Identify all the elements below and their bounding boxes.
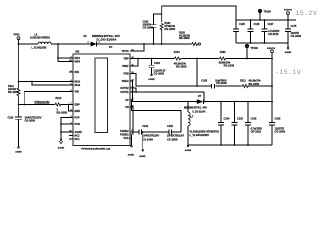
junction FBN line end xyxy=(271,85,273,87)
ground AGND left bus xyxy=(15,147,22,154)
pin stub NC2 xyxy=(69,135,73,137)
svg-text:CS-1608: CS-1608 xyxy=(275,131,286,134)
svg-text:RS-1608: RS-1608 xyxy=(176,66,187,69)
wire FBP line xyxy=(130,58,272,60)
svg-text:CS-1608: CS-1608 xyxy=(25,120,36,123)
wire P5V2 left bus xyxy=(19,44,21,88)
U32 left pin numbers xyxy=(69,56,72,132)
wire P5GOOD to ENP xyxy=(19,104,74,106)
svg-text:AGND: AGND xyxy=(58,146,65,149)
diode D6 xyxy=(91,42,97,47)
svg-text:VLS6012HBX-4R7M/TDK: VLS6012HBX-4R7M/TDK xyxy=(30,36,50,39)
svg-text:C135: C135 xyxy=(237,117,243,120)
U32 right pin names xyxy=(120,50,129,140)
svg-text:AGND: AGND xyxy=(128,153,135,156)
diode D7 xyxy=(197,99,204,104)
value label D6 xyxy=(84,35,121,43)
capacitor C127 xyxy=(261,20,267,43)
value label C162 xyxy=(167,125,184,141)
svg-text:CS-1608: CS-1608 xyxy=(154,72,165,75)
junction bottom rail C136 xyxy=(247,144,249,146)
pin stub INN xyxy=(69,71,73,73)
svg-text:PSP: PSP xyxy=(75,116,80,119)
svg-text:TPS65131RGER-Q1: TPS65131RGER-Q1 xyxy=(81,149,112,151)
svg-text:ENP: ENP xyxy=(75,103,80,106)
wire N15V rail xyxy=(204,101,272,103)
svg-text:AGND: AGND xyxy=(148,78,155,81)
svg-text:VLS6012HBX-4R7M/TDK: VLS6012HBX-4R7M/TDK xyxy=(190,130,220,133)
resistor R211 xyxy=(242,85,249,88)
junction INA split xyxy=(31,81,33,83)
junction C164 xyxy=(151,58,153,60)
resistor R194 xyxy=(174,57,182,60)
value labels C125 C126 C127 xyxy=(239,23,280,36)
value label D7 xyxy=(184,95,207,113)
junction bottom rail C135 xyxy=(234,144,236,146)
junction N15V rail bus xyxy=(271,101,273,103)
capacitor C162 xyxy=(169,130,171,135)
svg-text:C169: C169 xyxy=(275,117,281,120)
svg-text:AGND: AGND xyxy=(15,150,22,153)
svg-text:R194: R194 xyxy=(174,51,180,54)
svg-text:RS-1608: RS-1608 xyxy=(224,64,235,67)
junction VPOS tap xyxy=(143,43,145,45)
svg-text:INP2: INP2 xyxy=(75,60,81,63)
svg-text:AGND: AGND xyxy=(285,51,292,54)
inductor L7 xyxy=(188,102,190,145)
value label C175 xyxy=(291,25,302,38)
wire PSP PSN manifold xyxy=(61,118,73,139)
svg-text:C165: C165 xyxy=(201,79,207,82)
svg-text:CN: CN xyxy=(125,106,129,109)
svg-text:C161: C161 xyxy=(142,125,148,128)
junction CN wire xyxy=(132,131,134,133)
svg-text:RS-1608: RS-1608 xyxy=(249,83,260,86)
svg-text:TP109: TP109 xyxy=(251,47,259,50)
wire FBN line xyxy=(130,74,272,87)
svg-text:L_VLS6012HBX: L_VLS6012HBX xyxy=(32,47,47,50)
wire PGND to ground xyxy=(130,135,132,146)
junction C163 xyxy=(153,43,155,45)
capacitor C126 xyxy=(247,20,253,43)
port P15V0V xyxy=(287,12,290,20)
svg-text:VIN: VIN xyxy=(75,90,79,93)
svg-text:-15.1V: -15.1V xyxy=(275,69,301,76)
svg-text:RS-1608: RS-1608 xyxy=(57,111,68,114)
svg-text:D_DO-216AA: D_DO-216AA xyxy=(193,110,206,113)
capacitor C165 xyxy=(212,84,215,89)
svg-text:R213: R213 xyxy=(56,97,62,100)
ground AGND top bank xyxy=(285,48,292,55)
junction bottom rail C127 xyxy=(264,42,266,44)
junction AGND pin xyxy=(60,131,62,133)
capacitor C135 xyxy=(231,102,237,145)
svg-text:CS-1608: CS-1608 xyxy=(291,35,302,38)
svg-text:PGND2: PGND2 xyxy=(120,130,129,133)
value label R194 xyxy=(174,51,187,69)
wire net P15V to FB network xyxy=(97,43,191,45)
value label R182 xyxy=(165,22,176,31)
svg-text:L_VLS6012HBX: L_VLS6012HBX xyxy=(190,134,210,137)
svg-text:2: 2 xyxy=(99,42,100,44)
value label R191 xyxy=(8,85,19,94)
junction INA tap xyxy=(18,81,20,83)
svg-text:CR-3216: CR-3216 xyxy=(251,131,262,134)
junction TP109 xyxy=(246,58,248,60)
svg-text:CS-1608: CS-1608 xyxy=(167,139,178,142)
value label C161 xyxy=(142,125,159,141)
value label C163 xyxy=(143,21,154,30)
svg-text:VREF: VREF xyxy=(122,65,129,68)
svg-text:CS-1608: CS-1608 xyxy=(143,27,154,30)
wire FB link vertical xyxy=(196,59,198,87)
capacitor C136 xyxy=(245,102,251,145)
svg-text:C127: C127 xyxy=(268,23,274,26)
value label C169 xyxy=(275,117,286,133)
svg-text:MBRM140T3G, 40V: MBRM140T3G, 40V xyxy=(184,106,207,109)
resistor R191 xyxy=(17,88,20,117)
junction C161 ground tap xyxy=(142,131,144,133)
ground AGND C161 xyxy=(139,132,146,158)
svg-text:1: 1 xyxy=(88,42,89,44)
wire net P5V2 main line xyxy=(19,43,92,45)
svg-text:PAD: PAD xyxy=(124,137,129,140)
svg-text:C164: C164 xyxy=(154,62,160,65)
port P5V2 xyxy=(17,37,20,44)
svg-text:INA2: INA2 xyxy=(75,84,81,87)
wire INA1 INA2 xyxy=(19,82,74,86)
junction N15V rail C135 xyxy=(234,101,236,103)
svg-text:C134: C134 xyxy=(224,117,230,120)
junction bottom rail C134 xyxy=(220,144,222,146)
wire ENN tie xyxy=(69,105,74,112)
svg-text:C175: C175 xyxy=(291,25,297,28)
value label C164 xyxy=(154,62,166,75)
resistor R183 (OPT, no-connect circle) xyxy=(191,43,200,46)
test point TP109 xyxy=(245,44,248,58)
svg-text:P5V2: P5V2 xyxy=(14,33,21,36)
value label R211 xyxy=(240,79,261,86)
wire OUTN rail xyxy=(130,88,204,102)
U32 right pin numbers xyxy=(132,49,135,135)
U32 left pin names xyxy=(75,57,83,141)
wire AGND rail top bank xyxy=(236,43,288,47)
ground AGND C164 xyxy=(148,74,155,81)
svg-text:104/X7R/16V: 104/X7R/16V xyxy=(142,135,159,138)
pin stub NC1 xyxy=(69,138,73,140)
junction VIN drop xyxy=(23,104,25,106)
capacitor C125 xyxy=(233,20,239,43)
wire CP flying cap loop top xyxy=(130,100,181,132)
svg-text:104/X7R/16V: 104/X7R/16V xyxy=(167,135,184,138)
resistor R196 xyxy=(219,57,227,60)
junction INP split xyxy=(57,57,59,59)
svg-text:PGND1: PGND1 xyxy=(120,134,129,137)
junction N15V rail C136 xyxy=(247,101,249,103)
svg-text:C160: C160 xyxy=(8,117,14,120)
wire INP1 INP2 from node SW1 xyxy=(58,44,73,62)
svg-text:R196: R196 xyxy=(220,51,226,54)
svg-text:VNEG: VNEG xyxy=(122,80,129,83)
test point TP108 xyxy=(258,9,261,20)
svg-text:C125: C125 xyxy=(239,23,245,26)
junction L7 tap xyxy=(187,101,189,103)
junction FB mid node xyxy=(196,58,198,60)
svg-text:VPOS: VPOS xyxy=(122,50,129,53)
svg-text:AGND: AGND xyxy=(185,149,192,152)
wire VREF jog xyxy=(130,59,138,67)
ground AGND L7 xyxy=(185,145,192,152)
capacitor C160 xyxy=(15,117,22,147)
resistor R182 xyxy=(160,6,163,44)
ground AGND under IC xyxy=(58,139,65,149)
svg-text:R211: R211 xyxy=(240,79,246,82)
inductor L5 xyxy=(38,42,51,44)
net label P5GOOD xyxy=(35,101,50,104)
svg-text:INN: INN xyxy=(75,71,80,74)
svg-text:CS-1608: CS-1608 xyxy=(142,139,153,142)
value label L7 xyxy=(190,116,220,138)
junction top rail C127 xyxy=(264,19,266,21)
svg-text:PSN: PSN xyxy=(75,123,80,126)
svg-text:C126: C126 xyxy=(254,23,260,26)
value label C160 xyxy=(8,117,42,123)
junction bottom rail C126 xyxy=(250,42,252,44)
svg-text:CP: CP xyxy=(125,99,129,102)
svg-text:N15V0V: N15V0V xyxy=(267,48,276,50)
value label R183 xyxy=(179,32,191,41)
svg-text:U32: U32 xyxy=(75,50,80,53)
svg-text:49.9k/1%: 49.9k/1% xyxy=(249,79,262,82)
capacitor C164 xyxy=(148,59,154,75)
capacitor C161 xyxy=(139,130,141,135)
wire VNEG rail xyxy=(130,81,197,102)
wire VIN xyxy=(24,92,73,105)
junction OUTN tie xyxy=(135,91,137,93)
junction R182 xyxy=(161,43,163,45)
junction at inductor input xyxy=(18,43,20,45)
resistor R213 xyxy=(55,103,62,106)
wire VPOS pin to P15V line xyxy=(130,44,144,51)
value label L5 xyxy=(30,34,50,50)
svg-text:TP108: TP108 xyxy=(264,10,272,13)
svg-text:CS-1608: CS-1608 xyxy=(216,82,227,85)
value labels C134 C135 C136 xyxy=(224,117,263,133)
svg-text:C162: C162 xyxy=(167,125,173,128)
capacitor C134 xyxy=(218,102,224,145)
svg-text:11: 11 xyxy=(132,49,134,51)
junction top rail C175 xyxy=(287,19,289,21)
port N15V0V xyxy=(271,50,274,123)
svg-text:AGND: AGND xyxy=(139,155,146,158)
junction D7 cathode xyxy=(203,101,205,103)
junction PSN xyxy=(60,123,62,125)
ground AGND PGND xyxy=(128,145,135,156)
svg-text:RS-1608: RS-1608 xyxy=(165,28,176,31)
junction ENP ENN tie xyxy=(68,104,70,106)
junction FBN mid xyxy=(196,85,198,87)
junction top rail C126 xyxy=(250,19,252,21)
value label C165 xyxy=(201,79,227,85)
junction P5GOOD node xyxy=(18,104,20,106)
svg-text:PC: PC xyxy=(109,46,113,49)
wire +15V top rail xyxy=(162,6,296,20)
svg-text:RS-1608: RS-1608 xyxy=(179,37,190,40)
svg-text:FBP: FBP xyxy=(124,57,129,60)
svg-text:FBN: FBN xyxy=(124,72,129,75)
svg-text:RS-1608: RS-1608 xyxy=(8,91,19,94)
svg-text:ENN: ENN xyxy=(75,110,80,113)
value label R213 xyxy=(56,97,68,114)
junction N15V rail C134 xyxy=(220,101,222,103)
capacitor C163 xyxy=(150,14,161,44)
svg-text:OUTN2: OUTN2 xyxy=(120,87,129,90)
wire N15V bottom rail xyxy=(188,144,272,146)
svg-text:NC1: NC1 xyxy=(75,138,81,141)
capacitor C175 xyxy=(285,20,291,43)
IC U32 TPS65131 xyxy=(73,54,130,146)
svg-text:P15V0V: P15V0V xyxy=(284,10,293,12)
svg-text:15.2V: 15.2V xyxy=(296,10,318,17)
svg-text:C136: C136 xyxy=(251,117,257,120)
svg-text:OUTN1: OUTN1 xyxy=(120,91,129,94)
junction node SW1 xyxy=(57,43,59,45)
svg-text:CR-3216: CR-3216 xyxy=(268,33,279,36)
wire CN jog xyxy=(130,107,133,132)
value label R196 xyxy=(219,51,235,68)
capacitor C169 xyxy=(269,122,275,145)
junction FBP line end xyxy=(271,58,273,60)
junction top rail TP108 xyxy=(259,19,261,21)
junction VREF jog xyxy=(137,58,139,60)
